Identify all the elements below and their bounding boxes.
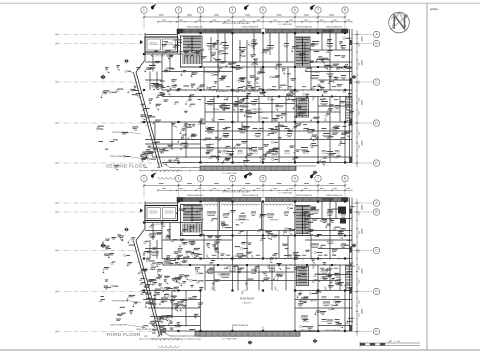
svg-text:WINDOW ABOVE: WINDOW ABOVE [112,300,129,303]
svg-text:KITCHEN: KITCHEN [311,72,320,74]
bottom platform band (SECOND FLOOR) [162,163,316,176]
svg-text:SECOND FLOOR: SECOND FLOOR [106,164,147,169]
grid bubbles 1-8 top row (THIRD FLOOR) [141,175,348,197]
svg-text:WINDOW ABOVE: WINDOW ABOVE [296,25,313,28]
svg-text:I.C. PLATFORM: I.C. PLATFORM [278,23,292,26]
exterior east wall (THIRD FLOOR) [350,198,353,332]
secondary top dimension line (SECOND FLOOR) [157,20,352,23]
west dimension marks (THIRD FLOOR) [140,336,200,340]
secondary top dimension line (THIRD FLOOR) [157,188,352,191]
revision cloud (THIRD FLOOR) [152,338,181,347]
svg-text:FILING: FILING [213,109,220,111]
svg-text:WINDOW ABOVE: WINDOW ABOVE [300,329,316,332]
section markers (THIRD FLOOR) [100,173,356,345]
window-above captions at south wall (THIRD FLOOR) [136,328,341,332]
room labels (SECOND FLOOR) [208,49,320,146]
north arrow [389,12,410,33]
svg-text:CONFERENCE: CONFERENCE [235,220,250,222]
svg-text:4: 4 [232,8,234,12]
north wall above lifts (THIRD FLOOR) [145,202,178,206]
svg-text:LIFT LOBBY: LIFT LOBBY [155,56,165,58]
grid bubbles 1-8 top row (SECOND FLOOR) [141,7,348,29]
svg-text:6: 6 [294,8,296,12]
room labels (THIRD FLOOR) [190,220,317,328]
exterior east wall (SECOND FLOOR) [350,29,353,163]
svg-text:WINDOW ABOVE: WINDOW ABOVE [326,194,343,197]
svg-text:5: 5 [262,177,264,181]
room tag rows (SECOND FLOOR) [206,86,340,153]
svg-text:LIFT NO.1: LIFT NO.1 [150,211,158,213]
left captions (SECOND FLOOR) [110,131,145,159]
room tag rows (THIRD FLOOR) [210,255,340,322]
svg-text:6: 6 [294,177,296,181]
svg-text:14TH FLOOR AT 20th WALL ART: 14TH FLOOR AT 20th WALL ART [222,191,251,194]
svg-text:1 : 100: 1 : 100 [394,341,401,343]
furniture (SECOND FLOOR) [148,41,346,155]
top dimension line (THIRD FLOOR) [143,183,347,187]
west diagonal wall (SECOND FLOOR) [131,52,162,168]
door swings (SECOND FLOOR) [166,68,329,127]
lift shafts (SECOND FLOOR) [145,37,178,58]
svg-text:I.C. PLATFORM: I.C. PLATFORM [222,172,237,175]
svg-text:LIFT NO.1: LIFT NO.1 [150,43,158,45]
svg-text:WINDOW ABOVE: WINDOW ABOVE [242,25,259,28]
svg-text:WINDOW ABOVE: WINDOW ABOVE [326,25,343,28]
svg-text:WINDOW ABOVE: WINDOW ABOVE [110,324,127,327]
stair east (THIRD FLOOR) [295,206,310,236]
door jambs (THIRD FLOOR) [168,258,346,267]
stair east (SECOND FLOOR) [295,37,310,67]
structural columns (SECOND FLOOR) [140,32,346,164]
svg-text:WINDOW ABOVE: WINDOW ABOVE [187,194,204,197]
dark fixtures east rooms (THIRD FLOOR) [311,207,346,224]
svg-text:( 250 m² ): ( 250 m² ) [242,302,251,305]
svg-text:7: 7 [317,8,319,12]
svg-text:I.C. PLATFORM: I.C. PLATFORM [222,338,237,341]
structural columns (THIRD FLOOR) [140,200,346,332]
svg-text:3: 3 [200,177,202,181]
svg-text:8: 8 [344,8,346,12]
svg-text:OFFICE: OFFICE [309,301,317,303]
svg-text:NOTES:: NOTES: [430,9,439,11]
scale bar [360,341,420,347]
east edge shaft hatch (THIRD FLOOR) [346,266,353,291]
svg-text:WINDOW ABOVE: WINDOW ABOVE [325,329,341,332]
svg-text:RM: RM [195,223,198,225]
svg-text:5: 5 [262,8,264,12]
west diagonal wall (THIRD FLOOR) [131,221,162,337]
conference room curtain walls (THIRD FLOOR) [204,204,293,206]
revision cloud (SECOND FLOOR) [152,170,181,179]
interior partition walls (SECOND FLOOR) [141,29,352,163]
stair west (SECOND FLOOR) [181,36,203,67]
east edge shaft hatch (SECOND FLOOR) [346,97,353,122]
lift shafts (THIRD FLOOR) [145,206,178,227]
door swings (THIRD FLOOR) [166,236,329,295]
svg-text:WINDOW ABOVE: WINDOW ABOVE [136,328,152,331]
stair west (THIRD FLOOR) [181,205,203,236]
svg-text:4: 4 [232,177,234,181]
grid bubbles A-E right column (THIRD FLOOR) [352,200,380,335]
svg-text:2: 2 [178,8,180,12]
svg-text:LECTURE: LECTURE [208,49,218,51]
interior partition walls (THIRD FLOOR) [141,198,352,332]
svg-text:OFFICES: OFFICES [270,220,279,222]
bottom platform band (THIRD FLOOR) [162,331,320,341]
svg-text:RM: RM [240,223,243,225]
exterior north wall band (SECOND FLOOR) [177,29,348,33]
furniture (THIRD FLOOR) [148,210,346,324]
svg-text:PLAN ROOM: PLAN ROOM [240,298,254,301]
page bottom border [0,349,480,351]
stair east lower (SECOND FLOOR) [297,98,309,117]
svg-text:COMPUTER: COMPUTER [250,109,262,111]
exterior north wall band (THIRD FLOOR) [177,198,348,202]
left captions (THIRD FLOOR) [110,300,145,328]
svg-text:1: 1 [143,8,145,12]
grid extension lines rows A-E (THIRD FLOOR) [55,202,162,333]
right dimension line (SECOND FLOOR) [355,30,362,167]
svg-text:WINDOW ABOVE: WINDOW ABOVE [296,194,313,197]
section markers (SECOND FLOOR) [100,4,356,176]
svg-text:3: 3 [200,8,202,12]
svg-text:LIFT NO.2: LIFT NO.2 [165,211,173,213]
top dimension line (SECOND FLOOR) [143,15,347,19]
window captions (THIRD FLOOR) [187,191,343,197]
plan room wall columns (THIRD FLOOR) [230,265,275,331]
notes column divider [426,3,428,350]
grid extension lines rows A-E (SECOND FLOOR) [55,33,162,164]
svg-text:WINDOW ABOVE: WINDOW ABOVE [232,324,249,327]
annotation callouts (SECOND FLOOR) [97,37,355,170]
north wall above lifts (SECOND FLOOR) [145,33,178,37]
svg-text:WINDOW ABOVE: WINDOW ABOVE [242,194,259,197]
stair east lower (THIRD FLOOR) [297,267,309,286]
svg-text:WINDOW ABOVE: WINDOW ABOVE [187,25,204,28]
svg-text:2: 2 [178,177,180,181]
svg-text:I.C. PLATFORM: I.C. PLATFORM [278,192,292,195]
door jambs (SECOND FLOOR) [168,89,346,98]
svg-text:CONFERENCE: CONFERENCE [190,220,205,222]
page top border [0,2,480,4]
svg-text:7: 7 [317,177,319,181]
right dimension line (THIRD FLOOR) [355,199,362,336]
svg-text:8: 8 [344,177,346,181]
svg-text:LIFT LOBBY: LIFT LOBBY [155,224,165,226]
annotation callouts (THIRD FLOOR) [99,206,354,335]
window captions (SECOND FLOOR) [187,22,343,28]
grid bubbles A-E right column (SECOND FLOOR) [352,31,380,166]
svg-text:1: 1 [143,177,145,181]
west dimension marks (SECOND FLOOR) [140,167,200,172]
svg-text:14TH FLOOR AT 20th WALL ART: 14TH FLOOR AT 20th WALL ART [222,22,251,25]
svg-text:THIRD FLOOR: THIRD FLOOR [106,332,141,337]
